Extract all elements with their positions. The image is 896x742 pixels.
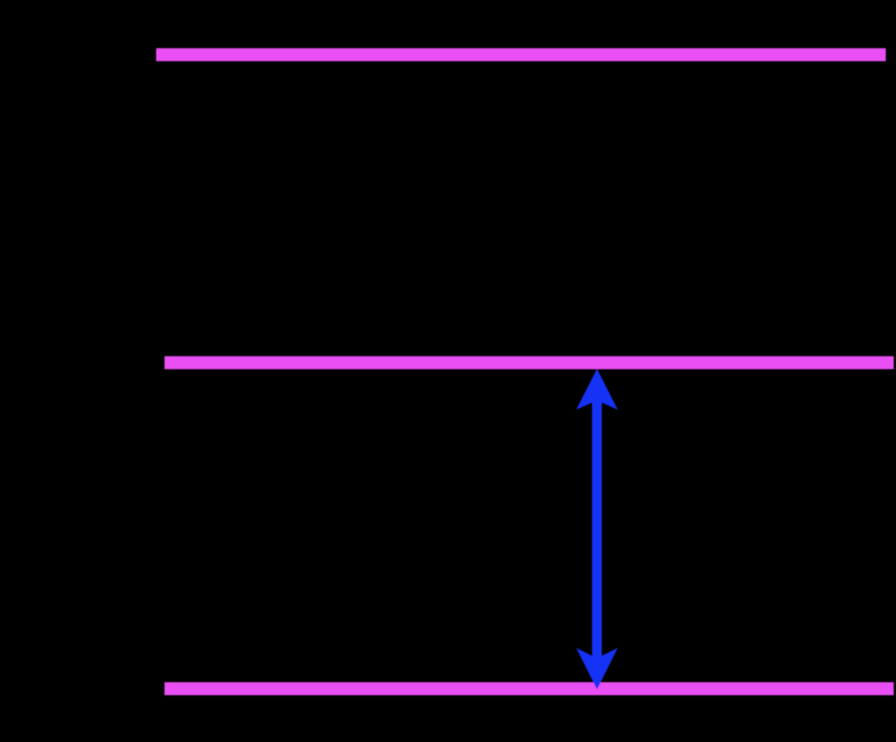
energy level E1 (bottom bar) [165,682,894,695]
transition arrow (blue double-headed, E2 to E1) [576,369,618,690]
energy level E2 (middle bar) [165,356,894,369]
energy level E3 (top bar) [156,48,886,61]
